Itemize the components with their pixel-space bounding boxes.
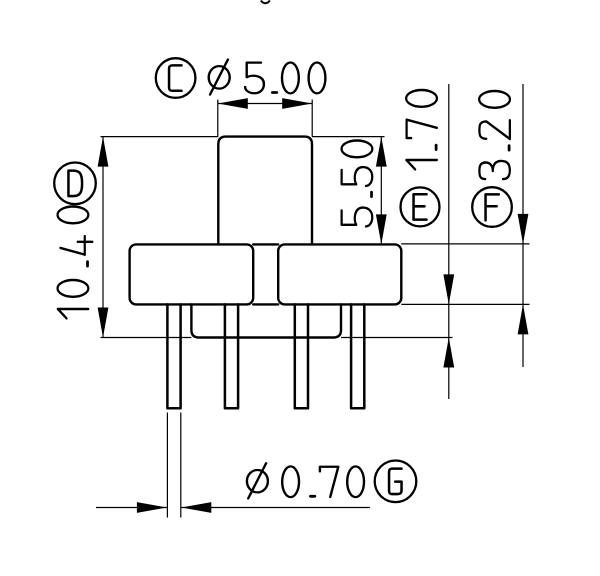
arrow E lower (up) [443, 338, 454, 368]
dimension line 5.50 [380, 137, 382, 245]
center pedestal below flanges [191, 304, 341, 337]
dimension text 1.70 (vertical) [406, 90, 437, 169]
arrow F lower (up) [518, 304, 529, 334]
extension line tube-top right (5.50) [312, 136, 385, 138]
extension line pedestal-bottom left (D) [101, 337, 192, 339]
extension line flange-top right (F) [401, 243, 529, 245]
extension line pin1 left edge [166, 413, 168, 518]
dimension line C (dia 5.00) [218, 103, 312, 105]
pin 3 [295, 304, 308, 408]
balloon label E [401, 187, 440, 226]
extension line C left [217, 100, 219, 137]
extension line pedestal-bottom right (E) [341, 337, 453, 339]
arrow 5.50 bottom [376, 214, 387, 244]
dimension line G left segment [96, 507, 167, 509]
bobbin core tube (top body) [218, 137, 312, 245]
dimension text 3.20 (vertical) [479, 91, 510, 179]
arrow C left [218, 98, 248, 109]
arrow D bottom [98, 308, 109, 338]
extension line tube-top left (D) [101, 136, 219, 138]
dimension text 5.50 (vertical) [342, 141, 373, 227]
extension line flange-bottom right (E,F) [401, 303, 529, 305]
arrow G right (left-pointing) [181, 502, 211, 513]
dimension line D (10.40) [102, 137, 104, 338]
balloon label D [54, 163, 96, 205]
pin 4 [351, 304, 364, 408]
arrow G left (right-pointing) [137, 502, 167, 513]
left flange [130, 244, 254, 304]
arrow D top [98, 137, 109, 167]
balloon label G [375, 461, 417, 503]
balloon label F [472, 187, 512, 227]
dimension line E (1.70) [448, 84, 450, 399]
extension line pin1 right edge [180, 413, 182, 518]
pin 1 [167, 304, 180, 408]
pin 2 [225, 304, 238, 408]
cropped mark at top edge [261, 1, 270, 4]
balloon label C [156, 58, 196, 98]
right flange [278, 244, 401, 304]
arrow C right [282, 98, 312, 109]
dimension text dia5.00 [209, 59, 326, 94]
arrow E upper (down) [443, 274, 454, 304]
dimension text dia0.70 [247, 463, 364, 498]
hidden edge across flange gap [253, 243, 278, 245]
arrow 5.50 top [376, 137, 387, 167]
arrow F upper (down) [518, 214, 529, 244]
dimension line F (3.20) [522, 84, 524, 367]
extension line C right [311, 100, 313, 137]
hidden edge across flange gap at bottom [253, 303, 278, 305]
dimension text 10.40 (vertical) [58, 207, 93, 319]
dimension line G right segment [181, 507, 370, 509]
